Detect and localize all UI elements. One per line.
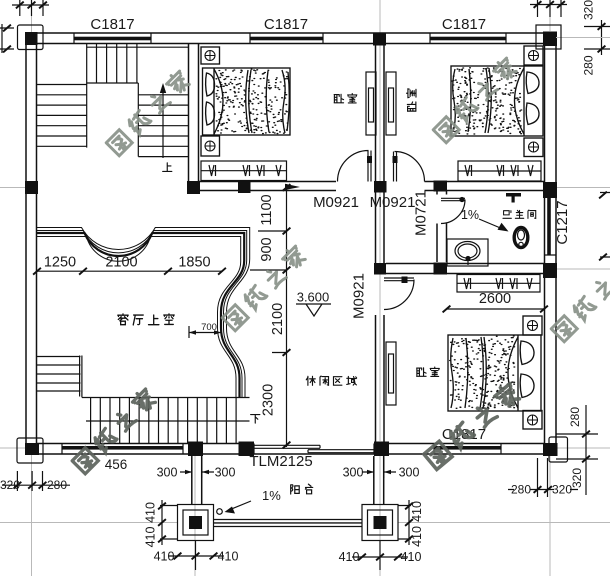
label yangtai balcony [291, 484, 313, 494]
svg-text:TLM2125: TLM2125 [249, 453, 312, 470]
window C1217 right wall [547, 190, 551, 255]
axis bubble boxes [18, 25, 44, 50]
bed 2 [451, 46, 543, 157]
stair/bedroom wall [189, 44, 199, 182]
balcony post left [178, 505, 214, 541]
column B4 bottom [188, 442, 203, 457]
nightstand 3a [523, 316, 542, 335]
svg-text:2300: 2300 [261, 384, 277, 416]
column E1 top-right [543, 32, 557, 47]
bathroom bottom wall [386, 264, 545, 274]
top-left margin ticks [12, 0, 49, 16]
small wall arrow [285, 184, 300, 190]
curved mezzanine edge band [37, 228, 250, 398]
nightstand 1b [201, 136, 220, 156]
dim 320/280 top-right margin [584, 20, 610, 55]
nightstand 3b [523, 411, 542, 430]
post axis stubs [196, 541, 381, 571]
column C2 mid cross [374, 181, 387, 193]
top-right corner ext [530, 0, 567, 17]
window C1817 top-3 [430, 37, 506, 41]
svg-text:900: 900 [259, 237, 275, 261]
column E2 right-mid [543, 182, 557, 198]
bed 1 [201, 47, 290, 156]
window C1817 bottom-right [434, 446, 501, 450]
drain circle + 1% balcony [217, 509, 223, 515]
svg-text:1250: 1250 [44, 255, 76, 271]
outer wall right [545, 33, 557, 454]
column B2 stair wall [187, 181, 200, 194]
lower stair steps [91, 398, 237, 444]
window C1817 top-1 [74, 37, 151, 41]
svg-text:C1817: C1817 [264, 16, 308, 33]
window C1817 top-2 [250, 37, 323, 41]
column B2b wall [238, 181, 251, 193]
svg-text:C1817: C1817 [442, 16, 486, 33]
stair left flight steps [37, 85, 87, 147]
watermark 5 [423, 381, 522, 469]
middle vertical wall [376, 45, 385, 444]
svg-text:410: 410 [144, 527, 158, 548]
svg-text:280: 280 [568, 407, 582, 427]
watermark 1 [105, 69, 192, 156]
balcony stub left [192, 456, 202, 505]
column A2 left-mid [25, 181, 38, 194]
closet bedroom3 [457, 275, 540, 293]
stair right flight steps [138, 83, 188, 157]
stair upper flight [87, 44, 189, 84]
column E3 right-lower [543, 263, 557, 278]
dim 410 pairs bottom [168, 555, 224, 557]
dim 320/280 bottom-left [2, 471, 70, 491]
nightstand 2b [524, 138, 543, 157]
balcony rail [214, 520, 363, 527]
label woshi bedroom2 rotated [407, 89, 416, 112]
nightstand 1a [201, 47, 220, 64]
svg-text:410: 410 [144, 502, 158, 523]
bed 3 [448, 316, 542, 429]
svg-text:320: 320 [0, 478, 20, 492]
stair stringer [86, 44, 88, 148]
stair up arrow [162, 92, 164, 158]
balcony stub right [374, 456, 384, 505]
closet bedroom2 [458, 161, 541, 181]
column C1 top-middle [373, 33, 386, 46]
watermark 2 [432, 56, 519, 143]
dim 280/320 right margin lower [556, 405, 598, 495]
column B4b bottom [239, 442, 255, 457]
outer wall top [26, 33, 556, 44]
shower fixture [506, 193, 521, 197]
tall cabinet bedroom3 [386, 342, 396, 405]
svg-text:3.600: 3.600 [297, 290, 330, 305]
watermark 4 [71, 387, 158, 474]
middle horizontal wall [199, 182, 545, 191]
dim 410 rotated right post [398, 500, 411, 545]
svg-text:C1217: C1217 [554, 200, 571, 244]
label shang (up) [163, 163, 172, 172]
column A4 bottom-left [25, 443, 39, 455]
svg-text:M0721: M0721 [413, 190, 430, 236]
svg-text:320: 320 [582, 0, 596, 20]
svg-text:M0921: M0921 [351, 273, 368, 319]
door M0921 bedroom3 [384, 278, 414, 310]
svg-text:410: 410 [410, 501, 424, 522]
label woshi bedroom3 [417, 367, 440, 376]
svg-text:1%: 1% [262, 488, 281, 503]
closet bedroom1 [201, 161, 287, 181]
right margin small ticks [600, 193, 610, 258]
dim 2600 bedroom3 [447, 308, 545, 310]
svg-text:M0921: M0921 [370, 194, 416, 211]
svg-text:410: 410 [410, 526, 424, 547]
label xia (down) [251, 415, 260, 424]
column D3 bath lower [434, 263, 448, 275]
door M0921 bedroom2 [394, 152, 425, 182]
svg-text:M0921: M0921 [313, 194, 359, 211]
watermark 7 [550, 255, 610, 342]
svg-text:320: 320 [570, 468, 584, 488]
label woshi bedroom1 [334, 94, 357, 103]
watermark 3 [221, 244, 308, 331]
svg-text:300: 300 [157, 466, 178, 480]
door M0921 bedroom1 [338, 151, 372, 182]
svg-text:300: 300 [399, 466, 420, 480]
stair down line [86, 420, 250, 422]
balcony post right [362, 505, 398, 541]
svg-text:280: 280 [47, 478, 67, 492]
svg-text:C1817: C1817 [90, 16, 134, 33]
column D2 bath corner [434, 181, 448, 192]
sink counter [447, 239, 488, 266]
dim 280/320 bottom-right [508, 458, 578, 497]
toilet [514, 228, 528, 248]
bathroom left wall [437, 191, 447, 262]
svg-text:410: 410 [154, 550, 175, 564]
lower stair rail [80, 356, 250, 398]
column A1 top-left [25, 32, 38, 45]
column E4 bottom-right [543, 443, 558, 456]
window bottom-left [62, 446, 183, 450]
svg-text:2600: 2600 [479, 291, 511, 307]
label keting living void [118, 314, 174, 325]
lower stair left flight [37, 357, 81, 392]
label xiuxian area [306, 376, 356, 385]
label weishengjian bathroom [503, 210, 536, 218]
sink [455, 242, 480, 261]
svg-text:300: 300 [215, 466, 236, 480]
dim 410 rotated left post [160, 500, 178, 545]
svg-text:300: 300 [343, 466, 364, 480]
svg-text:410: 410 [218, 550, 239, 564]
column C4 bottom [374, 442, 389, 457]
dim row living room 1250/2100/1850 [37, 270, 222, 272]
interior vertical dim stack 1100/900/2100/2300 [250, 184, 287, 447]
outer wall left [26, 33, 37, 454]
door M0721 bathroom [441, 198, 465, 223]
outer wall bottom [26, 444, 556, 455]
svg-text:280: 280 [511, 483, 531, 497]
svg-text:456: 456 [105, 457, 128, 472]
nightstand 2a [524, 46, 543, 65]
sliding door TLM2125 [254, 444, 374, 455]
column C3 mid-lower [374, 263, 386, 275]
svg-text:1100: 1100 [259, 194, 275, 225]
svg-text:410: 410 [401, 550, 422, 564]
svg-text:2100: 2100 [105, 255, 137, 271]
svg-text:2100: 2100 [270, 303, 286, 335]
left margin marks [0, 24, 14, 53]
wardrobe pair on middle wall [366, 72, 376, 135]
svg-text:1850: 1850 [178, 255, 210, 271]
svg-text:410: 410 [339, 550, 360, 564]
svg-text:1%: 1% [461, 208, 479, 222]
svg-text:280: 280 [582, 55, 596, 75]
